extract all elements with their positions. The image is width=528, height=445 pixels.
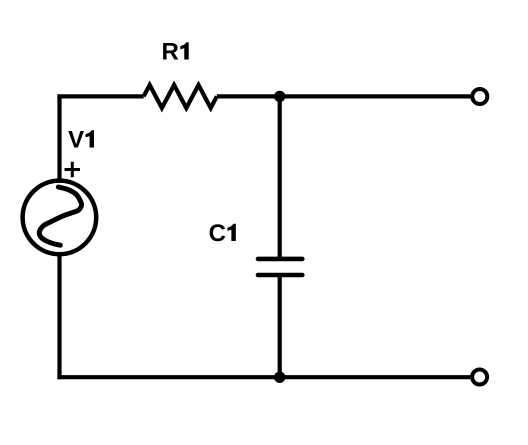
label C1 (210, 224, 236, 241)
wire: bottom-left vertical (source bottom to corner) (57, 256, 61, 379)
wire: capacitor bottom vertical (278, 275, 282, 377)
wire: top-left vertical (corner to source top) (57, 94, 61, 179)
voltage source V1 sine squiggle (39, 187, 81, 245)
wire: top horizontal right (resistor to terminal) (217, 94, 471, 98)
terminal top-right (472, 89, 487, 104)
node A (top junction dot) (274, 91, 285, 102)
capacitor C1 top plate (258, 257, 302, 262)
label V1 (68, 130, 94, 147)
label R1 (163, 42, 189, 59)
polarity plus sign (65, 162, 81, 177)
terminal bottom-right (472, 370, 487, 385)
voltage source V1 circle (23, 181, 97, 255)
resistor R1 (144, 85, 217, 108)
wire: capacitor top vertical (278, 96, 282, 257)
node B (bottom junction dot) (274, 372, 285, 383)
capacitor C1 bottom plate (258, 273, 302, 278)
wire: top horizontal left (corner to resistor) (57, 94, 143, 98)
wire: bottom horizontal (57, 375, 470, 379)
